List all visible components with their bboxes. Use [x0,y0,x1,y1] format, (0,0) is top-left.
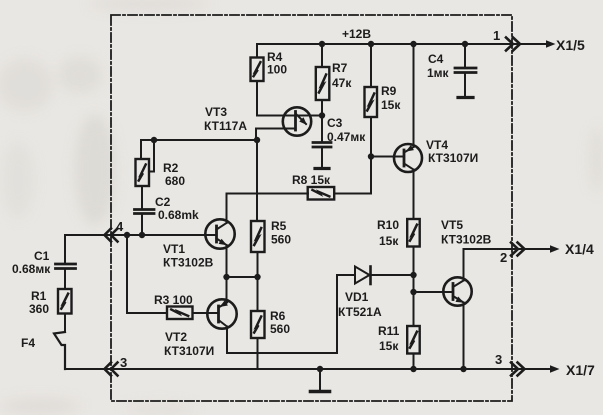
svg-text:КТ3102В: КТ3102В [163,256,214,270]
capacitor C1 [56,235,76,289]
svg-text:360: 360 [29,302,49,316]
wire VT5 base [414,291,454,293]
svg-text:VT2: VT2 [165,330,187,344]
svg-text:1мк: 1мк [427,66,450,80]
svg-text:R3 100: R3 100 [154,293,193,307]
svg-text:R5: R5 [271,219,287,233]
pin 1 chevron connector [506,38,520,51]
R11 value label [378,324,400,353]
svg-text:X1/5: X1/5 [556,37,585,53]
fuse-breaker F4 [54,332,65,369]
svg-text:680: 680 [165,174,185,188]
R8 value label [292,173,331,187]
svg-text:C4: C4 [428,52,444,66]
node R5 / R6 [254,274,260,280]
node R7/+12V [319,41,325,47]
resistor R2 [136,140,155,210]
node VD1 / R10 [410,272,416,278]
VT4 type label [426,138,478,165]
resistor R1 [58,289,72,332]
svg-text:КТ3107И: КТ3107И [164,344,214,358]
pin 2 chevron connector [511,243,525,256]
wire VT5 emitter down [463,303,465,370]
node VT5 emitter / common [460,366,466,372]
resistor R10 [407,219,420,326]
VT1 type label [163,242,214,270]
R6 value label [270,309,290,336]
node C4/+12V [462,41,468,47]
svg-text:3: 3 [120,355,127,370]
VT3 type label [204,105,247,133]
node R9/+12V [368,41,374,47]
svg-text:4: 4 [116,219,124,234]
module boundary dash-dot frame [111,15,512,401]
node R11 / common [410,366,416,372]
R2 value label [163,161,185,188]
svg-text:КТ3102В: КТ3102В [441,233,492,247]
pin 4 wire [65,234,217,236]
svg-text:0.68mk: 0.68mk [158,208,199,222]
svg-text:R8 15к: R8 15к [292,173,331,187]
svg-text:C2: C2 [155,195,171,209]
svg-text:VD1: VD1 [345,290,369,304]
VT2 type label [164,330,214,358]
svg-text:C3: C3 [327,116,343,130]
pin 1 arrow to X1/5 [546,40,556,47]
node ground / common [317,366,323,372]
C3 value label [327,116,366,144]
pin 3 left number [120,355,127,370]
svg-text:15к: 15к [379,234,399,248]
svg-text:3: 3 [495,352,502,367]
svg-text:R6: R6 [270,309,286,323]
pin 2 arrow to X1/4 [550,245,560,252]
node VT5 base / R11 [410,289,416,295]
pin 1 number [493,28,500,43]
pin 3 left chevron connector [105,363,118,376]
svg-text:VT5: VT5 [441,218,463,232]
R4 value label [267,50,287,77]
wire VT1 branch down to R3 [127,235,167,313]
capacitor C4 [455,44,476,98]
svg-text:2: 2 [500,250,507,265]
svg-text:X1/4: X1/4 [565,241,594,257]
svg-text:R10: R10 [377,218,399,232]
transistor VT1 [205,219,234,248]
pin 2 number [500,250,507,265]
node VT4/+12V [410,41,416,47]
VT5 type label [441,218,492,247]
R10 value label [377,218,399,248]
resistor R5 [251,221,265,277]
X1/4 terminal label [565,241,594,257]
svg-text:КТ521А: КТ521А [338,305,382,319]
VD1 type label [338,290,382,319]
R7 value label [332,61,352,90]
wire VT1 collector to R8 [227,194,309,224]
R1 value label [29,289,49,316]
C1 value label [12,249,51,276]
R3 value label [154,293,193,307]
C4 value label [427,52,450,80]
unijunction transistor VT3 [256,107,322,140]
resistor R6 [251,277,265,369]
wire R2 top to VT3 node [141,139,257,141]
svg-text:VT4: VT4 [426,138,448,152]
transistor VT2 [207,299,236,328]
wire VT3 node down to R5 [256,140,258,221]
svg-text:F4: F4 [21,336,35,350]
resistor R3 [167,307,219,320]
node VT3 B1 / R7 / C3 [319,112,325,118]
pin 4 chevron connector [105,229,118,242]
svg-text:0.68мк: 0.68мк [12,262,51,276]
+12V net label [342,27,371,41]
transistor VT4 [394,144,422,172]
wire VT4 emitter to +12V [413,44,415,147]
resistor R7 [316,44,330,143]
svg-text:15к: 15к [381,98,401,112]
svg-text:560: 560 [270,322,290,336]
pin 3 right number [495,352,502,367]
resistor R11 [407,326,420,369]
wire VT4 collector to R10 [413,170,415,220]
resistor R9 [365,44,378,194]
svg-text:47к: 47к [332,76,352,90]
diode VD1 [337,267,414,285]
svg-text:КТ117А: КТ117А [204,119,247,133]
svg-text:X1/7: X1/7 [566,362,595,378]
pin 3 right chevron connector [511,363,525,376]
node R2 tap [151,137,157,143]
node VT1 emitter / VT2 emitter [223,274,229,280]
node pin4 / R3 branch [124,232,130,238]
capacitor C3 [313,143,331,169]
F4 label [21,336,35,350]
svg-text:15к: 15к [379,339,399,353]
wire R9/R8 node to VT4 base [371,156,404,158]
svg-text:КТ3107И: КТ3107И [428,151,478,165]
svg-text:R7: R7 [332,61,348,75]
R5 value label [271,219,291,247]
svg-text:0.47мк: 0.47мк [327,130,366,144]
resistor R8 [308,157,371,200]
capacitor C2 [135,210,155,236]
svg-text:R2: R2 [163,161,179,175]
svg-text:1: 1 [493,28,500,43]
C2 value label [155,195,199,222]
R9 value label [381,84,401,112]
common bottom wire [65,368,552,370]
wire VT5 collector to pin 2 [464,249,553,281]
svg-text:100: 100 [267,63,287,77]
ground symbol [311,369,330,392]
svg-text:R1: R1 [31,289,47,303]
node VT3 / R2 / R5 [254,137,260,143]
svg-text:VT3: VT3 [205,105,227,119]
svg-text:R11: R11 [378,324,400,338]
wire VT2 emitter up [226,277,228,303]
svg-text:C1: C1 [34,249,50,263]
node pin4 / C2 [139,232,145,238]
emitter node link wire [227,276,258,278]
wire VT1 emitter down [226,245,228,277]
svg-text:R9: R9 [381,84,397,98]
svg-text:VT1: VT1 [163,242,185,256]
wire VT2 collector to VD1 [227,275,337,353]
svg-text:+12В: +12В [342,27,371,41]
svg-text:560: 560 [271,233,291,247]
resistor R4 [251,44,264,116]
node R9 / R8 / VT4 base [368,153,374,159]
+12V rail wire [257,43,548,45]
X1/5 terminal label [556,37,585,53]
pin 3 arrow to X1/7 [550,365,560,372]
pin 4 number [116,219,124,234]
transistor VT5 [443,277,471,305]
X1/7 terminal label [566,362,595,378]
